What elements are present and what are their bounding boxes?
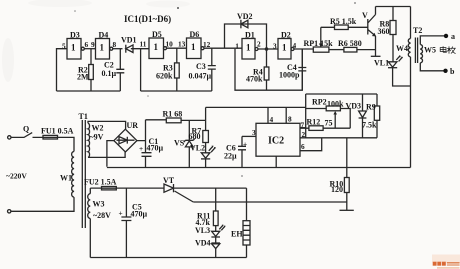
svg-text:VD1: VD1 bbox=[121, 36, 137, 45]
svg-text:R9: R9 bbox=[366, 103, 376, 112]
wire mono loop left bbox=[235, 49, 302, 90]
svg-text:b: b bbox=[450, 67, 455, 76]
LED VL2 bbox=[190, 144, 216, 168]
resistor R10 bbox=[330, 168, 350, 211]
svg-text:VL2: VL2 bbox=[190, 144, 205, 153]
svg-text:D1: D1 bbox=[245, 31, 255, 40]
zener VS bbox=[174, 120, 195, 167]
resistor R6 bbox=[338, 39, 362, 52]
gate D2 bbox=[273, 31, 297, 60]
svg-text:~9V: ~9V bbox=[90, 133, 104, 142]
wire RP1 to R6 bbox=[329, 49, 344, 51]
gate D5 bbox=[140, 30, 174, 59]
svg-text:T1: T1 bbox=[79, 112, 88, 121]
gate wire bbox=[193, 201, 346, 203]
watermark bbox=[432, 255, 460, 269]
wire bridge minus to ground rail bbox=[107, 141, 114, 167]
terminal a bbox=[444, 34, 448, 38]
main ground rail bbox=[107, 167, 411, 169]
transformer T2 W4 winding bbox=[396, 7, 411, 168]
svg-text:VD4: VD4 bbox=[195, 239, 211, 248]
resistor R5 bbox=[321, 17, 368, 30]
label electrode bbox=[440, 46, 455, 53]
LED VL1 bbox=[374, 56, 403, 68]
diode VD4 bbox=[195, 239, 220, 258]
svg-text:W4: W4 bbox=[396, 44, 408, 53]
LED VL3 bbox=[195, 225, 226, 243]
resistor R7 bbox=[189, 120, 209, 152]
node junction D1-D2 bbox=[265, 47, 269, 51]
svg-text:+: + bbox=[119, 209, 123, 218]
R1 node to rail bbox=[205, 107, 207, 120]
wire VL1 to ground rail bbox=[393, 68, 411, 86]
svg-text:1: 1 bbox=[100, 43, 105, 53]
IC2 pin 8 bbox=[285, 107, 287, 123]
svg-text:VL1: VL1 bbox=[374, 59, 389, 68]
potentiometer RP1 bbox=[304, 27, 334, 52]
svg-text:100k: 100k bbox=[327, 100, 344, 109]
IC2 pin 4 bbox=[267, 107, 269, 123]
svg-text:1: 1 bbox=[235, 41, 239, 50]
T2 W5 winding bbox=[420, 36, 444, 71]
svg-text:620k: 620k bbox=[156, 72, 173, 81]
terminal lower bbox=[8, 210, 11, 213]
wire bridge plus bbox=[137, 120, 146, 153]
wire D4 out bbox=[113, 48, 123, 50]
diode VD2 bbox=[225, 12, 267, 49]
svg-text:1: 1 bbox=[191, 42, 196, 52]
supply rail to IC2 bbox=[206, 106, 306, 108]
svg-text:FU1 0.5A: FU1 0.5A bbox=[41, 127, 74, 136]
svg-text:D4: D4 bbox=[99, 31, 109, 40]
wire VD1 to D5 bbox=[131, 48, 149, 50]
resistor R1 bbox=[163, 110, 206, 123]
wire D1 out to D2 in bbox=[258, 48, 278, 50]
IC2 bbox=[256, 123, 300, 156]
svg-text:8: 8 bbox=[113, 40, 117, 49]
capacitor C1 bbox=[139, 137, 164, 167]
fuse FU2 bbox=[84, 178, 164, 190]
svg-text:680: 680 bbox=[189, 132, 201, 141]
ground (R10) bbox=[340, 209, 354, 211]
svg-text:IC1(D1~D6): IC1(D1~D6) bbox=[124, 14, 171, 24]
svg-text:1: 1 bbox=[154, 42, 159, 52]
T1 W2 winding bbox=[88, 121, 126, 157]
svg-text:1000p: 1000p bbox=[279, 71, 300, 80]
svg-text:~220V: ~220V bbox=[6, 172, 27, 181]
T1 W3 winding bbox=[88, 188, 111, 257]
svg-text:C3: C3 bbox=[196, 62, 206, 71]
potentiometer RP2 bbox=[306, 98, 351, 129]
svg-text:+: + bbox=[243, 140, 247, 149]
svg-text:7.5k: 7.5k bbox=[362, 121, 377, 130]
svg-text:W2: W2 bbox=[92, 124, 104, 133]
wire R6 to emitter node bbox=[357, 49, 376, 51]
resistor R2 bbox=[77, 49, 93, 91]
svg-text:13: 13 bbox=[178, 40, 186, 49]
terminal b bbox=[443, 69, 447, 73]
svg-text:0.047µ: 0.047µ bbox=[189, 72, 212, 81]
svg-text:VD3: VD3 bbox=[346, 102, 362, 111]
svg-text:0.1µ: 0.1µ bbox=[102, 69, 117, 78]
RP2 network box bbox=[306, 94, 377, 138]
IC2 pin 3 bbox=[242, 135, 256, 137]
diode VD3 bbox=[346, 94, 367, 138]
svg-text:4: 4 bbox=[270, 115, 274, 124]
svg-text:9: 9 bbox=[91, 40, 95, 49]
T1 W1 winding bbox=[11, 152, 74, 212]
resistor R9 bbox=[362, 94, 380, 138]
svg-text:R1 68: R1 68 bbox=[163, 110, 183, 119]
wire osc1 bottom rail bbox=[57, 90, 121, 92]
gate D6 bbox=[178, 30, 211, 59]
ground (emitter) bbox=[371, 55, 381, 57]
bottom rail bbox=[90, 257, 246, 259]
IC2 pin 2 wire (network bottom) bbox=[300, 137, 377, 139]
svg-text:R12: R12 bbox=[307, 118, 321, 127]
svg-text:1: 1 bbox=[71, 43, 76, 53]
IC2 pin 7 bbox=[300, 127, 306, 129]
resistor R11 bbox=[196, 188, 219, 231]
capacitor C4 bbox=[279, 49, 306, 90]
capacitor C5 bbox=[119, 188, 148, 257]
gate D4 bbox=[91, 31, 117, 60]
fuse FU1 bbox=[33, 127, 75, 152]
svg-text:+: + bbox=[139, 144, 143, 153]
gate D1 bbox=[235, 31, 261, 60]
svg-text:T2: T2 bbox=[413, 26, 422, 35]
svg-text:22µ: 22µ bbox=[224, 152, 237, 161]
heater EH bbox=[231, 188, 250, 257]
svg-text:~28V: ~28V bbox=[93, 211, 111, 220]
transistor V bbox=[362, 7, 376, 57]
switch Q bbox=[8, 125, 33, 140]
wire D2 out to RP1 bbox=[294, 48, 313, 50]
svg-text:VD2: VD2 bbox=[237, 12, 253, 21]
svg-text:120: 120 bbox=[331, 185, 343, 194]
svg-text:UR: UR bbox=[127, 121, 139, 130]
diode VD1 bbox=[121, 36, 137, 53]
wire D6 out to D1 in bbox=[204, 47, 242, 49]
resistor R8 bbox=[378, 7, 397, 62]
svg-text:FU2 1.5A: FU2 1.5A bbox=[84, 178, 117, 187]
svg-text:2: 2 bbox=[257, 40, 261, 49]
T1 core bbox=[82, 120, 85, 228]
svg-text:75: 75 bbox=[325, 119, 333, 128]
wire pin5 input bbox=[57, 49, 68, 91]
svg-text:RP1 15k: RP1 15k bbox=[304, 39, 334, 48]
svg-text:IC2: IC2 bbox=[268, 136, 284, 147]
svg-text:W3: W3 bbox=[93, 200, 105, 209]
svg-text:10: 10 bbox=[166, 40, 174, 49]
svg-text:6: 6 bbox=[85, 40, 89, 49]
wire osc2 left vertical bbox=[140, 49, 142, 91]
svg-text:V: V bbox=[362, 11, 368, 20]
IC2 ground pin bbox=[275, 156, 277, 167]
svg-text:VL3: VL3 bbox=[195, 226, 210, 235]
IC2 pin 6 bbox=[300, 138, 322, 151]
resistor R4 bbox=[246, 49, 269, 90]
svg-text:D3: D3 bbox=[70, 31, 80, 40]
capacitor C3 bbox=[189, 48, 216, 91]
capacitor C6 bbox=[224, 136, 247, 167]
svg-text:W5: W5 bbox=[424, 46, 436, 55]
svg-text:EH: EH bbox=[231, 230, 243, 239]
resistor R3 bbox=[156, 48, 179, 91]
svg-text:1: 1 bbox=[246, 43, 251, 53]
svg-text:2: 2 bbox=[302, 130, 306, 139]
top rail bbox=[376, 6, 411, 8]
T2 core bbox=[415, 38, 417, 64]
svg-text:3: 3 bbox=[252, 128, 256, 137]
svg-text:D6: D6 bbox=[190, 30, 200, 39]
resistor R12 bbox=[300, 118, 350, 131]
bridge rectifier UR bbox=[114, 121, 138, 152]
capacitor C2 bbox=[102, 49, 125, 91]
wire D3 out to D4 in bbox=[84, 48, 95, 50]
svg-text:6: 6 bbox=[301, 142, 305, 151]
svg-text:470k: 470k bbox=[246, 75, 263, 84]
svg-text:470µ: 470µ bbox=[131, 210, 148, 219]
svg-text:RP2: RP2 bbox=[312, 98, 327, 107]
svg-text:W1: W1 bbox=[60, 174, 72, 183]
stem to ground rail bbox=[346, 138, 348, 168]
svg-text:Q: Q bbox=[23, 125, 29, 134]
wire osc2 bottom rail bbox=[141, 90, 212, 92]
svg-text:360: 360 bbox=[378, 27, 390, 36]
svg-text:D2: D2 bbox=[281, 31, 291, 40]
svg-text:1: 1 bbox=[282, 43, 287, 53]
svg-text:8: 8 bbox=[288, 115, 292, 124]
svg-text:R6 580: R6 580 bbox=[338, 39, 362, 48]
svg-text:a: a bbox=[451, 32, 455, 41]
svg-text:VS: VS bbox=[174, 139, 185, 148]
svg-text:11: 11 bbox=[140, 40, 147, 49]
svg-text:470µ: 470µ bbox=[147, 144, 164, 153]
thyristor VT bbox=[163, 176, 247, 202]
svg-text:D5: D5 bbox=[152, 30, 162, 39]
wire D5 out to D6 in bbox=[167, 47, 187, 49]
svg-text:R5 1.5k: R5 1.5k bbox=[330, 17, 357, 26]
gate D3 bbox=[62, 31, 89, 60]
svg-text:2M: 2M bbox=[77, 73, 89, 82]
